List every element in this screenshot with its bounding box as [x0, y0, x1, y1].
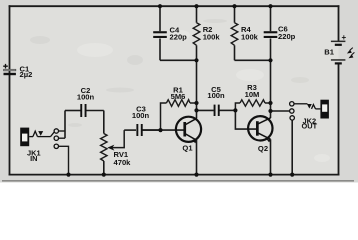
- wire right rail bottom (from battery): [338, 65, 340, 175]
- wire C2 left leg down to JK1: [64, 111, 66, 139]
- wire C4 bottom to R2 branch: [160, 59, 197, 61]
- svg-text:100k: 100k: [241, 32, 259, 41]
- svg-text:470k: 470k: [114, 158, 132, 167]
- svg-text:220p: 220p: [278, 32, 296, 41]
- node Q1 emitter ground junction: [194, 173, 198, 177]
- node C5/R3/Q2 base junction: [233, 108, 237, 112]
- svg-text:Q2: Q2: [258, 144, 268, 153]
- svg-text:220p: 220p: [170, 32, 188, 41]
- node JK2 contact circles: [290, 102, 295, 121]
- capacitor C2: [65, 86, 104, 117]
- svg-text:B1: B1: [324, 47, 334, 56]
- capacitor C4: [153, 6, 187, 60]
- node C4 top rail junction: [158, 4, 162, 8]
- node R4 top rail junction: [232, 4, 236, 8]
- wire R4 bottom to C6 branch: [235, 59, 271, 61]
- wire top rail: [10, 5, 339, 7]
- resistor R2: [193, 6, 220, 60]
- resistor R4: [231, 6, 258, 60]
- wire right rail top (to battery): [338, 6, 340, 40]
- jack JK2: [294, 100, 329, 131]
- node R2 top rail junction: [194, 4, 198, 8]
- wire C2 right leg down to RV1: [103, 111, 105, 134]
- wire JK1 sleeve to ground: [58, 146, 68, 174]
- wire C6/R4 node down to Q2 collector: [270, 60, 272, 118]
- svg-text:+: +: [342, 33, 347, 42]
- node R1/C3/Q1 base junction: [158, 128, 162, 132]
- battery B1: [324, 33, 354, 65]
- svg-text:Q1: Q1: [182, 143, 193, 152]
- transistor Q2: [248, 116, 272, 153]
- resistor R3: [235, 83, 270, 111]
- wire R3 left leg down to Q2 base: [235, 110, 257, 129]
- capacitor C5: [197, 85, 236, 116]
- node R4/C6 junction: [268, 58, 272, 62]
- svg-text:OUT: OUT: [301, 122, 317, 131]
- node C4/R2 junction: [194, 58, 198, 62]
- wire left rail: [9, 6, 11, 174]
- transistor Q1: [176, 117, 201, 153]
- resistor R1: [161, 85, 197, 130]
- wire R2/C4 node down to Q1 collector: [196, 60, 198, 118]
- svg-text:100n: 100n: [207, 91, 225, 100]
- capacitor C3: [124, 104, 160, 136]
- node R1/Q1 collector junction: [194, 101, 198, 105]
- wire Q1 emitter to ground: [196, 140, 198, 175]
- node C5/Q1 collector junction: [194, 108, 198, 112]
- svg-text:5M6: 5M6: [171, 92, 186, 101]
- wire JK1 ring contact: [58, 137, 65, 139]
- svg-text:100n: 100n: [132, 111, 150, 120]
- svg-text:IN: IN: [30, 154, 37, 163]
- svg-text:100k: 100k: [203, 32, 221, 41]
- node JK2 sleeve ground junction: [290, 173, 294, 177]
- node Q2 emitter ground junction: [268, 173, 272, 177]
- potentiometer RV1: [101, 130, 132, 175]
- wire bottom rail: [10, 174, 339, 176]
- node JK1 contact circles: [54, 129, 58, 149]
- svg-text:10M: 10M: [245, 90, 260, 99]
- node RV1 ground junction: [102, 173, 106, 177]
- svg-text:2µ2: 2µ2: [20, 70, 33, 79]
- wire Q2 collector node to JK2: [271, 110, 290, 112]
- scan background: [0, 0, 358, 183]
- node R3/Q2 collector junction: [268, 101, 272, 105]
- wire JK1 tip contact to C2 leg: [58, 130, 65, 132]
- svg-text:100n: 100n: [77, 92, 95, 101]
- wire Q2 emitter to ground: [270, 139, 272, 174]
- node JK1 sleeve ground junction: [66, 173, 70, 177]
- wire JK2 sleeve to ground: [291, 120, 293, 175]
- scan bottom shadow: [2, 180, 354, 182]
- jack JK1: [20, 128, 54, 163]
- wire C3 to Q1 base: [143, 129, 185, 131]
- capacitor C6: [264, 6, 296, 60]
- capacitor C1: [3, 64, 32, 79]
- node Q2 collector/JK2 junction: [268, 109, 272, 113]
- node C6 top rail junction: [268, 4, 272, 8]
